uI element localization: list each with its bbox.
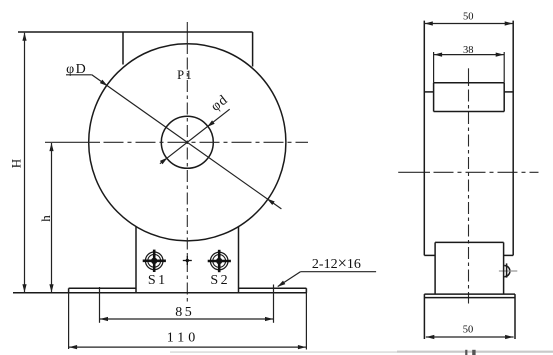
svg-text:H: H bbox=[9, 159, 24, 168]
svg-text:85: 85 bbox=[175, 305, 194, 320]
svg-text:50: 50 bbox=[463, 325, 474, 336]
svg-text:110: 110 bbox=[167, 331, 199, 346]
svg-text:2-12×16: 2-12×16 bbox=[312, 254, 361, 273]
svg-text:h: h bbox=[38, 215, 53, 222]
svg-text:P1: P1 bbox=[177, 68, 193, 82]
svg-text:S2: S2 bbox=[210, 273, 230, 288]
svg-text:50: 50 bbox=[463, 12, 474, 23]
svg-text:S1: S1 bbox=[148, 273, 168, 288]
svg-text:38: 38 bbox=[463, 45, 474, 56]
svg-text:φD: φD bbox=[66, 62, 87, 77]
